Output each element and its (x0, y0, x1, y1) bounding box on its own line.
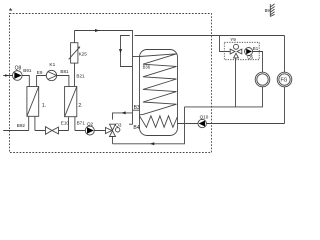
pump K1 (46, 62, 56, 81)
sensor B4 (133, 125, 139, 131)
consumer unit radiator circuit (255, 72, 270, 87)
svg-text:B36: B36 (143, 64, 151, 69)
svg-text:B21: B21 (76, 73, 85, 78)
heat exchanger 2 (65, 87, 83, 131)
flow arrow left on return (150, 142, 155, 145)
mixing valve (230, 44, 242, 58)
tank coil (140, 54, 177, 115)
wire bottom return segment 1 (3, 130, 29, 132)
diverting valve Q3 (106, 122, 122, 143)
svg-text:Q2: Q2 (87, 122, 94, 127)
pump Q10 (198, 114, 209, 127)
wire riser to FG unit (284, 87, 286, 124)
wire tank to Q10 (178, 123, 285, 125)
svg-text:B9: B9 (265, 8, 271, 13)
wire mid return y107 (185, 87, 263, 107)
svg-text:B92: B92 (17, 123, 26, 128)
svg-text:Y9: Y9 (230, 37, 236, 42)
wire bottom return segment 2 (35, 130, 69, 132)
mixing circuit dashed box (224, 42, 259, 59)
outside sensor B9 (265, 4, 275, 17)
svg-text:E10: E10 (61, 120, 70, 125)
svg-text:FG: FG (281, 78, 288, 84)
svg-text:B81: B81 (60, 69, 69, 74)
wire top supply segment 2 (37, 76, 69, 87)
shutoff valve (46, 127, 59, 135)
heat exchanger 1 (27, 87, 46, 131)
svg-text:K25: K25 (79, 51, 88, 56)
wire FG to top line (284, 36, 286, 73)
consumer unit FG (277, 72, 292, 87)
flow arrow down (119, 49, 122, 54)
sensor B3 (133, 105, 140, 111)
wire branch to tank coil inlet (133, 56, 140, 58)
svg-text:2.: 2. (78, 103, 82, 109)
pump Q8 (12, 66, 22, 81)
wire top supply segment 1 (3, 76, 29, 87)
svg-text:B91: B91 (23, 68, 32, 73)
svg-text:Q5: Q5 (247, 55, 253, 60)
svg-text:B1: B1 (253, 46, 259, 51)
wire feed to mixer (220, 36, 230, 52)
wire bottom return to riser (113, 107, 185, 144)
wire bottom return segment 3 (75, 130, 105, 132)
svg-text:Q3: Q3 (115, 122, 122, 127)
electric heater K25 (69, 31, 88, 87)
svg-text:E9: E9 (37, 70, 43, 75)
svg-text:1.: 1. (42, 103, 46, 109)
svg-text:Q10: Q10 (200, 114, 209, 119)
wire return line from top (119, 36, 285, 67)
storage tank (140, 50, 178, 136)
svg-text:B4: B4 (133, 125, 139, 131)
wire mixer bypass riser (235, 58, 237, 107)
svg-text:*: * (9, 7, 13, 18)
svg-text:Q8: Q8 (15, 66, 22, 72)
svg-text:B71: B71 (77, 121, 86, 126)
wire flow line to tank (74, 31, 132, 125)
pump heating circuit (245, 46, 259, 60)
wire to valve Q3 top (113, 113, 133, 120)
pump Q2 (85, 122, 94, 135)
wire pump to consumer (253, 52, 263, 73)
flow arrow left into valve (121, 111, 126, 114)
flow arrow right at border (5, 74, 9, 77)
system boundary dashed border (10, 14, 212, 153)
flow arrow right (95, 29, 100, 32)
svg-text:K1: K1 (49, 62, 55, 68)
tank electric element (140, 116, 178, 128)
